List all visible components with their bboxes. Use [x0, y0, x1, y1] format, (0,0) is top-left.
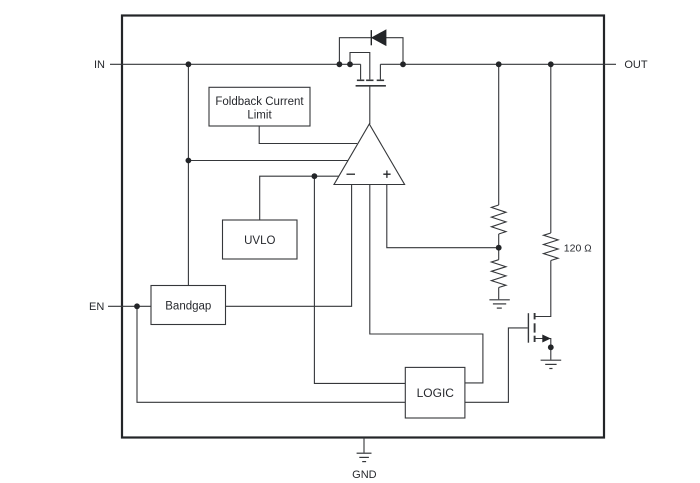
- wire UVLO branch to LOGIC: [314, 176, 405, 383]
- wire IN rail: [110, 63, 361, 65]
- op-amp plus sign: [383, 171, 390, 178]
- op-amp minus sign: [347, 173, 356, 175]
- block Foldback Current Limit: [209, 87, 310, 126]
- node junction mid input: [186, 158, 192, 164]
- wire divider middle: [498, 234, 500, 260]
- ground symbol GND pin: [357, 453, 372, 461]
- transistor Q1 PMOS pass element: [356, 80, 386, 86]
- wire diode loop left: [339, 38, 370, 65]
- node junction OUT/120ohm: [548, 61, 554, 67]
- svg-text:OUT: OUT: [624, 59, 648, 71]
- node junction OUT/diode: [400, 61, 406, 67]
- svg-text:UVLO: UVLO: [244, 235, 275, 247]
- wire bandgap output to amp minus input: [226, 185, 352, 307]
- node junction IN/diode: [337, 61, 343, 67]
- node junction IN/bandgap: [186, 61, 192, 67]
- diode D1 body diode: [371, 30, 386, 45]
- node junction IN/bulk: [347, 61, 353, 67]
- svg-text:120 Ω: 120 Ω: [564, 243, 592, 255]
- svg-text:IN: IN: [94, 59, 105, 71]
- wire amp plus input to feedback node: [387, 185, 499, 248]
- outer IC boundary box: [122, 16, 604, 438]
- resistor R3 120 ohm: [544, 233, 559, 261]
- wire bulk jog to IN: [350, 53, 370, 80]
- transistor Q2 NMOS discharge: [528, 313, 534, 343]
- block Bandgap: [151, 286, 226, 325]
- wire NMOS source to ground: [535, 339, 550, 360]
- svg-text:Limit: Limit: [247, 109, 272, 121]
- svg-text:LOGIC: LOGIC: [417, 386, 455, 400]
- svg-text:EN: EN: [89, 301, 104, 313]
- wire EN stub: [108, 305, 151, 307]
- svg-text:Bandgap: Bandgap: [165, 301, 211, 313]
- block UVLO: [223, 220, 298, 259]
- wire amp mid output to LOGIC: [370, 185, 483, 383]
- wire mid input to amp: [188, 160, 347, 162]
- ground symbol under NMOS: [541, 360, 562, 368]
- op-amp U1 error amplifier: [334, 124, 405, 185]
- wire UVLO to amp: [260, 176, 339, 220]
- wire OUT to 120 ohm resistor: [550, 64, 552, 233]
- wire drain lead: [379, 64, 381, 79]
- ground symbol under divider: [489, 300, 509, 308]
- block LOGIC: [405, 367, 465, 418]
- node junction NMOS source: [548, 344, 554, 350]
- wire IN vertical to bandgap: [187, 64, 189, 285]
- wire LOGIC output to NMOS gate: [465, 328, 528, 402]
- node junction feedback: [496, 245, 502, 251]
- transistor Q2 source arrow: [543, 335, 550, 342]
- wire foldback to amp: [259, 126, 357, 144]
- node junction UVLO branch: [312, 173, 318, 179]
- wire gate lead to amp apex: [369, 86, 371, 124]
- wire OUT rail: [380, 63, 616, 65]
- wire diode loop right: [386, 38, 403, 65]
- wire EN branch to LOGIC: [137, 306, 405, 402]
- resistor R2 bottom of divider: [491, 260, 506, 288]
- wire divider to ground: [498, 288, 500, 300]
- wire source lead: [360, 64, 362, 79]
- svg-text:GND: GND: [352, 469, 377, 481]
- wire GND stub: [363, 438, 365, 453]
- svg-text:Foldback Current: Foldback Current: [215, 96, 304, 108]
- resistor R1 top of divider: [491, 205, 506, 234]
- wire OUT to divider top: [498, 64, 500, 205]
- node junction EN branch: [134, 303, 140, 309]
- node junction OUT/divider: [496, 61, 502, 67]
- wire 120 ohm to NMOS drain: [535, 261, 550, 317]
